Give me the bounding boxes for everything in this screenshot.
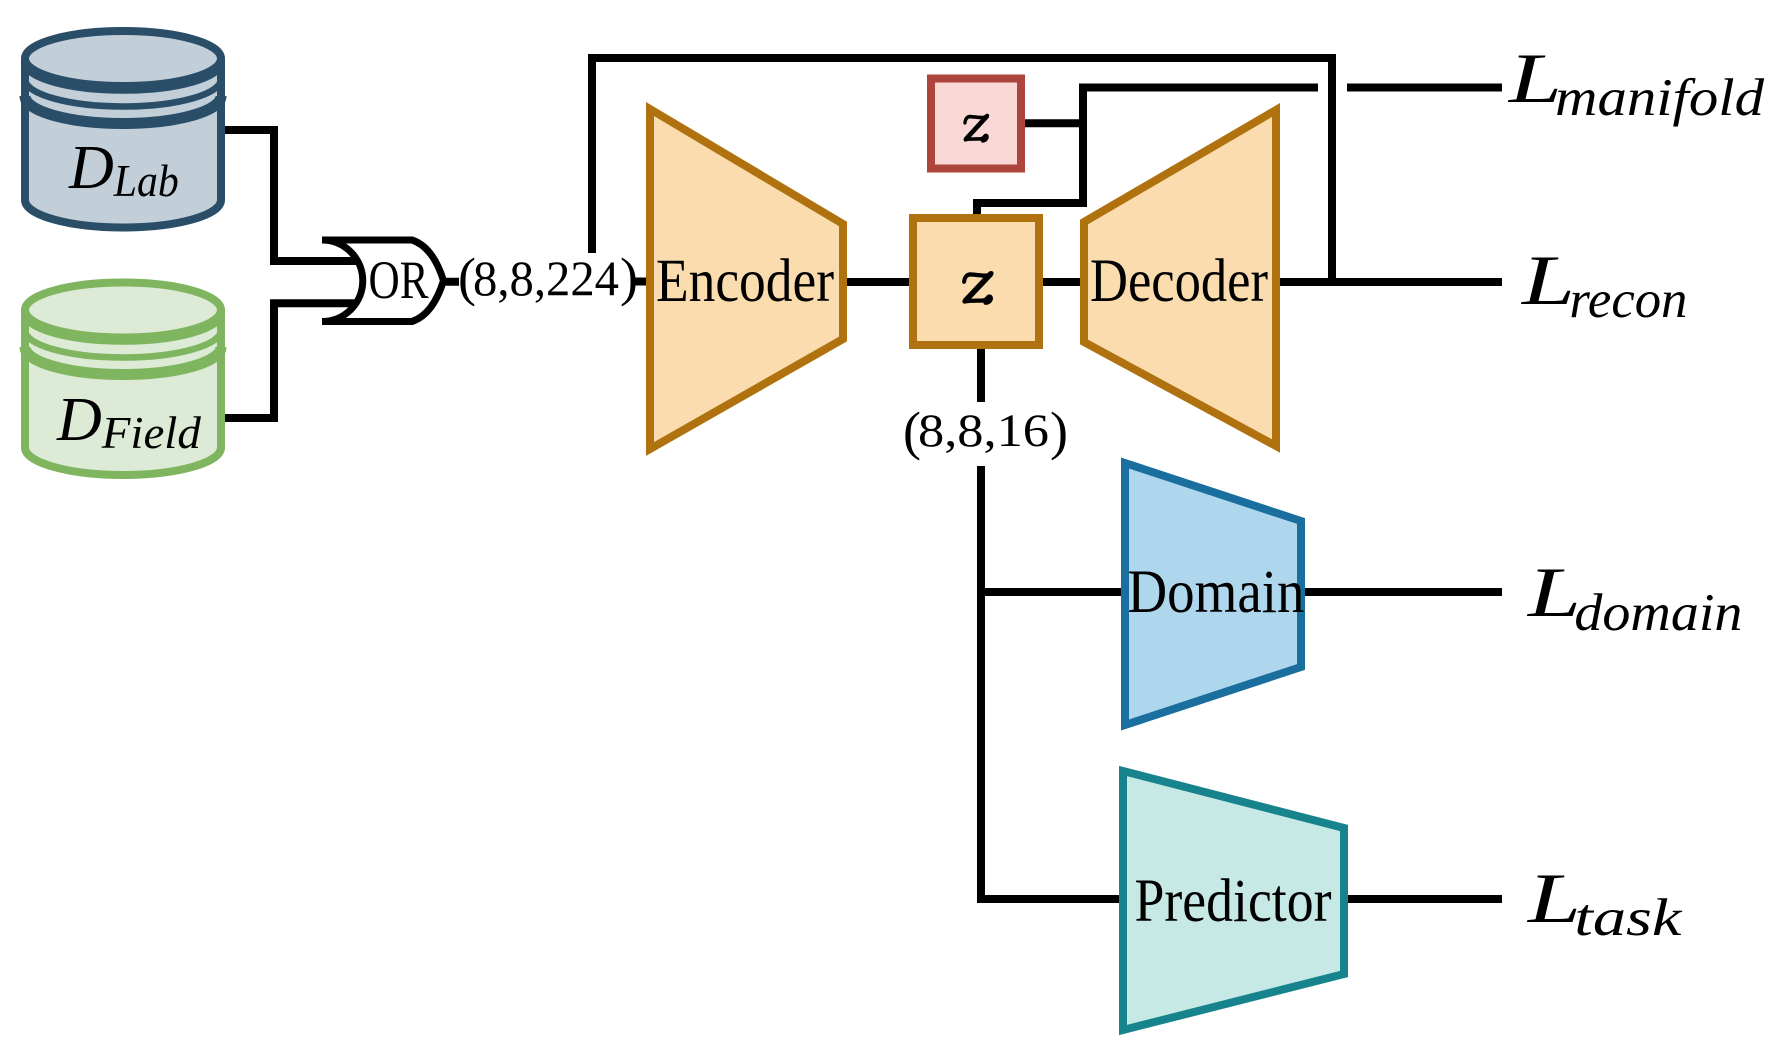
wire Domain to L_domain: [1301, 588, 1502, 596]
svg-text:8,8,16: 8,8,16: [918, 405, 1049, 457]
svg-text:Encoder: Encoder: [656, 248, 834, 315]
wire z to Decoder: [1039, 278, 1086, 286]
svg-text:Decoder: Decoder: [1090, 248, 1268, 315]
database D_Lab: [25, 31, 221, 227]
wire OR output stub: [440, 278, 459, 286]
svg-text:Domain: Domain: [1128, 559, 1305, 626]
wire Predictor to L_task: [1344, 895, 1502, 903]
predictor: [1123, 771, 1344, 1030]
wire (8,8,16) down to Domain and Predictor: [981, 466, 1130, 899]
svg-text:): ): [620, 247, 638, 307]
wire z bottom to (8,8,16): [977, 348, 985, 402]
encoder: [650, 109, 843, 449]
wire D_Lab to OR upper input: [225, 130, 362, 261]
decoder: [1084, 110, 1276, 446]
wire pink z to manifold vertical: [1025, 119, 1087, 127]
wire Decoder to L_recon: [1276, 278, 1502, 286]
wire Encoder to z: [843, 278, 913, 286]
svg-text:8,8,224: 8,8,224: [473, 250, 619, 306]
wire D_Field to OR lower input: [225, 303, 362, 418]
wire (8,8,224) to Encoder stub: [634, 278, 652, 286]
wire top rail: input skip connection to L_recon junction: [592, 58, 1332, 282]
wire z top to L_manifold: [977, 88, 1502, 219]
domain classifier: [1125, 463, 1305, 725]
svg-text:): ): [1050, 401, 1068, 461]
svg-text:OR: OR: [369, 250, 429, 310]
OR gate: [322, 240, 444, 322]
svg-text:Predictor: Predictor: [1135, 868, 1332, 935]
noisy z box (pink): [931, 79, 1021, 169]
latent z box: [913, 218, 1039, 345]
database D_Field: [25, 283, 221, 475]
